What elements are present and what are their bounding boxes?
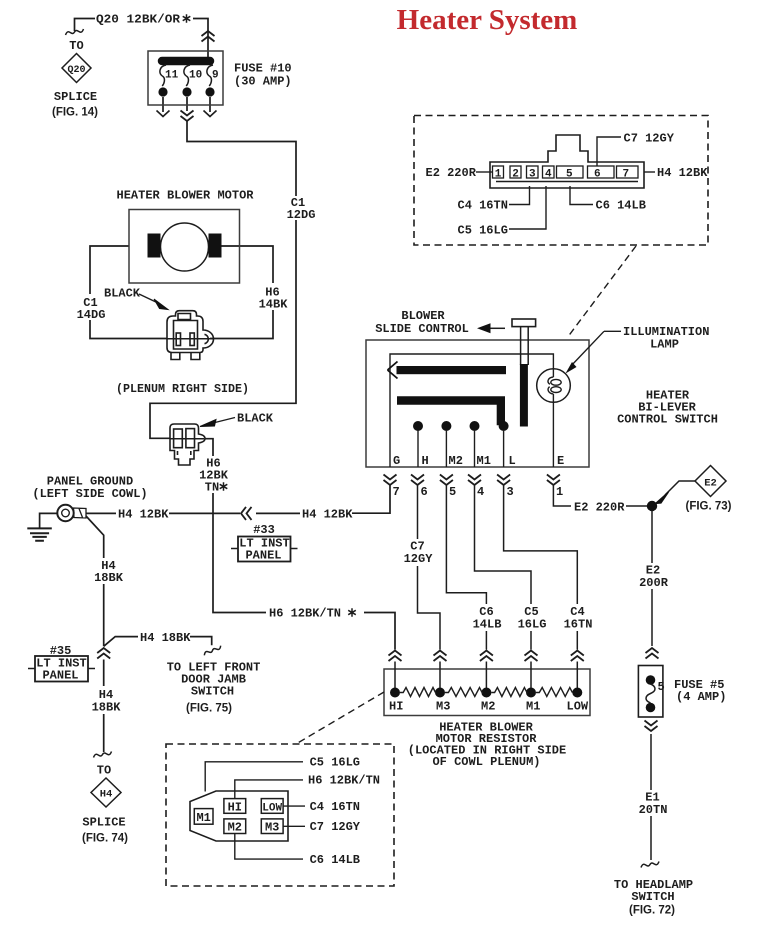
resistor element M3-M2 <box>445 688 482 697</box>
svg-text:(FIG. 73): (FIG. 73) <box>685 501 731 513</box>
svg-text:HI: HI <box>389 700 403 714</box>
svg-text:M2: M2 <box>228 821 242 835</box>
svg-text:(FIG. 14): (FIG. 14) <box>52 107 98 119</box>
track lower bar with arm <box>397 396 505 425</box>
wire fuse pin 11 lead-out <box>162 97 164 112</box>
label C5 16LG pin4 <box>509 186 546 229</box>
svg-text:12GY: 12GY <box>404 552 434 566</box>
svg-text:H: H <box>422 454 429 468</box>
lever shaft outline <box>521 327 529 365</box>
fuse F10 box <box>148 51 223 105</box>
connector ground plug <box>170 424 205 465</box>
svg-text:M1: M1 <box>477 454 491 468</box>
wire M2 pin5 to resistor M2 <box>446 486 486 650</box>
wire end squiggle Q20 <box>66 29 84 35</box>
svg-text:7: 7 <box>393 485 400 499</box>
cavity 6 <box>588 166 615 178</box>
svg-text:TN: TN <box>205 481 219 495</box>
connector on H4 12BK <box>241 507 252 520</box>
svg-text:2: 2 <box>512 169 519 181</box>
fuse F10 terminals <box>158 87 167 96</box>
node C1 14DG label <box>75 294 107 320</box>
svg-text:#33: #33 <box>253 523 275 537</box>
svg-text:Heater System: Heater System <box>397 4 578 36</box>
resistor element M2-M1 <box>491 688 527 697</box>
connectors below switch <box>384 475 397 486</box>
connector C1 body <box>490 135 644 188</box>
svg-text:18BK: 18BK <box>94 571 124 585</box>
lever shaft solid <box>520 364 528 427</box>
wire G internal <box>390 354 553 467</box>
connector on C1 12DG <box>181 111 194 122</box>
svg-text:SPLICE: SPLICE <box>54 90 97 104</box>
motor M1 left brush <box>148 234 161 258</box>
svg-text:E2 220R: E2 220R <box>426 166 477 180</box>
motor M1 right brush <box>209 234 222 258</box>
lever handle <box>512 319 536 327</box>
svg-text:LOW: LOW <box>262 803 282 815</box>
wire M1 pin4 to resistor M1 <box>475 486 532 650</box>
arrow pin 9 <box>204 111 217 117</box>
dashed detail box connector resistor <box>166 744 394 886</box>
svg-text:M2: M2 <box>481 700 495 714</box>
svg-text:CONTROL SWITCH: CONTROL SWITCH <box>617 413 718 427</box>
cavity 5 <box>557 166 584 178</box>
svg-text:SWITCH: SWITCH <box>631 890 674 904</box>
illumination lamp DS1 <box>537 369 571 403</box>
cavity 7 <box>617 166 639 178</box>
connector motor plug <box>167 311 214 360</box>
svg-text:HEATER BLOWER MOTOR: HEATER BLOWER MOTOR <box>117 189 255 203</box>
arrow slide control <box>489 327 505 329</box>
cavity 4 <box>543 166 555 178</box>
svg-text:FUSE #10: FUSE #10 <box>234 62 292 76</box>
contact wires to box bottom <box>418 430 504 467</box>
track upper bar <box>397 366 507 374</box>
wire panel ground drop <box>40 513 58 528</box>
fuse F5 box <box>638 666 663 718</box>
svg-text:BLACK: BLACK <box>237 412 274 426</box>
svg-text:7: 7 <box>623 169 630 181</box>
svg-text:200R: 200R <box>639 576 669 590</box>
cavity M3 <box>261 819 283 834</box>
wire H4 18BK branch <box>86 516 104 752</box>
svg-text:(FIG. 75): (FIG. 75) <box>186 703 232 715</box>
svg-text:10: 10 <box>189 70 202 82</box>
svg-text:M3: M3 <box>265 821 279 835</box>
svg-text:SWITCH: SWITCH <box>191 685 234 699</box>
svg-text:E2: E2 <box>704 478 717 490</box>
svg-text:C7 12GY: C7 12GY <box>624 132 675 146</box>
connector below fuse 5 <box>645 721 658 732</box>
wire H6 12BK/TN ground connector to panel/resistor <box>205 439 395 650</box>
ring terminal <box>57 505 73 521</box>
contact M2 <box>441 421 451 431</box>
svg-text:20TN: 20TN <box>639 803 668 817</box>
node H6 14BK label <box>256 284 290 310</box>
svg-text:C5 16LG: C5 16LG <box>458 224 508 238</box>
svg-text:4: 4 <box>477 485 484 499</box>
svg-text:18BK: 18BK <box>92 701 122 715</box>
svg-text:5: 5 <box>658 680 665 694</box>
label H4 12BK pin7 <box>644 171 655 173</box>
svg-text:PANEL: PANEL <box>42 669 78 683</box>
wire E internal <box>552 403 554 467</box>
fuse F10 bus bar <box>162 57 210 66</box>
svg-text:3: 3 <box>529 169 536 181</box>
svg-text:H4 12BK: H4 12BK <box>657 166 708 180</box>
svg-text:6: 6 <box>421 485 428 499</box>
fuse F5 terminals <box>646 675 656 685</box>
contact L <box>499 421 509 431</box>
svg-text:HI: HI <box>228 801 242 815</box>
svg-text:11: 11 <box>165 70 179 82</box>
wiper arrow upper <box>388 362 398 379</box>
svg-text:C6 14LB: C6 14LB <box>596 199 646 213</box>
wire H4 12BK ground run <box>86 486 390 514</box>
svg-text:M2: M2 <box>449 454 463 468</box>
svg-text:L: L <box>509 454 516 468</box>
contact M1 <box>470 421 480 431</box>
svg-text:H4 12BK: H4 12BK <box>118 508 169 522</box>
svg-text:SPLICE: SPLICE <box>82 816 125 830</box>
svg-text:5: 5 <box>449 485 456 499</box>
label C6 14LB detail <box>235 834 303 860</box>
wire end squiggle H4 splice <box>94 752 112 758</box>
wire H4 18BK to door jamb switch <box>104 637 212 647</box>
svg-text:M1: M1 <box>526 700 540 714</box>
svg-text:6: 6 <box>594 169 601 181</box>
wires into resistor block <box>395 662 577 692</box>
svg-text:16TN: 16TN <box>564 618 593 632</box>
svg-text:(4 AMP): (4 AMP) <box>676 690 726 704</box>
label C6 14LB pin5 <box>570 186 593 205</box>
svg-text:C4 16TN: C4 16TN <box>310 800 360 814</box>
svg-text:H4 18BK: H4 18BK <box>140 631 191 645</box>
wire C1 14DG motor left <box>90 246 167 339</box>
junction E2 <box>647 501 657 511</box>
label H6 12BK/TN detail <box>235 780 303 799</box>
label C5 16LG detail <box>205 762 303 792</box>
svg-text:(LEFT SIDE COWL): (LEFT SIDE COWL) <box>32 487 147 501</box>
svg-text:PANEL: PANEL <box>245 549 281 563</box>
svg-text:1: 1 <box>495 169 502 181</box>
svg-text:H6 12BK/TN: H6 12BK/TN <box>269 607 341 621</box>
svg-text:C4 16TN: C4 16TN <box>458 199 508 213</box>
svg-text:(FIG. 74): (FIG. 74) <box>82 833 128 845</box>
svg-text:9: 9 <box>212 70 219 82</box>
connector on Q20 wire <box>202 31 215 42</box>
contact H <box>413 421 423 431</box>
svg-text:M1: M1 <box>196 811 210 825</box>
cavity 2 <box>510 166 521 178</box>
svg-text:OF COWL PLENUM): OF COWL PLENUM) <box>432 755 540 769</box>
switch S1 heater bi-lever control box <box>366 340 589 467</box>
svg-text:H4: H4 <box>100 789 113 801</box>
wire H pin6 to resistor M3 <box>418 486 441 650</box>
wire end squiggle door jamb <box>203 646 222 656</box>
wire E2 200R to fuse 5 <box>651 511 653 646</box>
svg-text:(PLENUM RIGHT SIDE): (PLENUM RIGHT SIDE) <box>116 382 249 396</box>
connector above fuse 5 <box>646 648 659 659</box>
fuse F10 elements <box>160 65 213 86</box>
svg-text:E: E <box>557 454 564 468</box>
svg-text:LOW: LOW <box>567 700 589 714</box>
fuse F5 element <box>646 684 655 703</box>
wire H6 14BK motor right <box>210 246 273 339</box>
cavity 3 <box>527 166 539 178</box>
dashed leader resistor block to detail box <box>296 692 384 744</box>
svg-text:14DG: 14DG <box>77 308 106 322</box>
svg-text:LAMP: LAMP <box>650 338 679 352</box>
arrow pin 11 <box>157 111 170 117</box>
wire L pin3 to resistor LOW <box>504 486 578 650</box>
svg-text:C6 14LB: C6 14LB <box>310 853 360 867</box>
svg-text:TO: TO <box>69 39 83 53</box>
wire Q20 to fuse #10 <box>193 19 208 58</box>
svg-text:14BK: 14BK <box>259 298 289 312</box>
connector on H4 18BK <box>97 648 110 659</box>
wire end squiggle headlamp <box>641 862 659 868</box>
svg-text:TO: TO <box>97 764 111 778</box>
svg-text:M3: M3 <box>436 700 450 714</box>
cavity M2 <box>224 819 246 834</box>
svg-text:C7 12GY: C7 12GY <box>310 820 361 834</box>
resistor R1 block <box>384 669 590 716</box>
connector body resistor plug <box>190 791 288 841</box>
wire fuse pin 9 lead-out <box>209 97 211 112</box>
svg-text:5: 5 <box>566 169 573 181</box>
svg-text:Q20 12BK/OR: Q20 12BK/OR <box>96 13 181 27</box>
svg-text:Q20: Q20 <box>67 65 85 76</box>
cavity LOW <box>261 799 283 814</box>
label C4 16TN pin3 <box>509 186 530 205</box>
svg-text:3: 3 <box>507 485 514 499</box>
svg-text:H4 12BK: H4 12BK <box>302 508 353 522</box>
cavity M1 <box>194 809 213 825</box>
wire E pin1 to E2 junction <box>553 486 647 507</box>
svg-text:16LG: 16LG <box>518 618 547 632</box>
resistor terminals <box>390 688 400 698</box>
wire C1 12DG fuse pin10 to ground connector <box>150 97 296 438</box>
dashed leader to switch <box>567 246 636 338</box>
svg-text:1: 1 <box>556 485 563 499</box>
ground <box>27 528 52 540</box>
svg-text:(FIG. 72): (FIG. 72) <box>629 905 675 917</box>
label C7 12GY pin6 <box>597 137 621 166</box>
motor M1 armature <box>161 223 209 271</box>
resistor element HI-M3 <box>400 688 436 697</box>
svg-text:(30 AMP): (30 AMP) <box>234 75 292 89</box>
label C4 16TN detail <box>283 805 305 807</box>
resistor element M1-LOW <box>536 688 572 697</box>
connectors above resistor block <box>389 651 402 662</box>
svg-text:BLOWER: BLOWER <box>401 309 445 323</box>
label ILLUMINATION LAMP with leader <box>570 331 621 367</box>
motor M1 box <box>129 210 240 284</box>
node C1 12DG label <box>284 196 318 220</box>
cavity HI <box>224 799 246 814</box>
svg-text:12DG: 12DG <box>287 208 316 222</box>
svg-text:E2 220R: E2 220R <box>574 501 625 515</box>
svg-text:SLIDE CONTROL: SLIDE CONTROL <box>375 322 469 336</box>
svg-text:BLACK: BLACK <box>104 287 141 301</box>
label C7 12GY detail <box>283 825 305 827</box>
dashed detail box connector C1 (switch) <box>414 116 708 246</box>
svg-text:C5 16LG: C5 16LG <box>310 756 360 770</box>
cavity 1 <box>493 166 504 178</box>
node E2 (FIG. 73) diamond <box>665 466 726 497</box>
wire Q20 12BK/OR lead-in <box>75 19 96 32</box>
svg-text:14LB: 14LB <box>473 618 502 632</box>
svg-text:G: G <box>393 454 400 468</box>
wire E1 20TN <box>650 734 652 860</box>
svg-text:H6 12BK/TN: H6 12BK/TN <box>308 774 380 788</box>
svg-text:4: 4 <box>545 169 552 181</box>
